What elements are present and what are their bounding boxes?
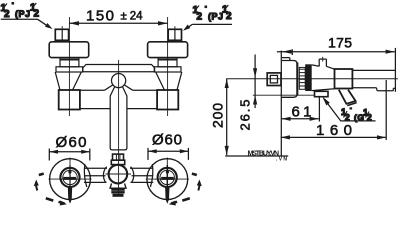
26.5 lower reference line	[253, 94, 315, 96]
left rotation arrow B	[34, 180, 39, 191]
left rotation arrow dash A	[39, 174, 44, 175]
diverter hub ears	[103, 167, 106, 183]
right escutcheon cover	[148, 42, 188, 58]
svg-text:160: 160	[316, 122, 352, 139]
wall line	[280, 51, 282, 157]
diverter hub circle	[109, 165, 128, 184]
left tube flare arc	[84, 164, 86, 187]
dimension 175	[277, 35, 395, 56]
spout tube	[352, 48, 395, 92]
label 1/2 (G 1/2) with leader	[322, 97, 375, 123]
left body taper	[55, 72, 81, 90]
svg-text:MSTBUY.VN: MSTBUY.VN	[248, 151, 280, 158]
body cone	[312, 65, 335, 91]
left wall hex nut	[55, 26, 68, 40]
diverter knob flange	[111, 160, 124, 164]
right handle crosshair	[146, 158, 189, 180]
right lever	[165, 187, 169, 204]
side wall hex nut	[267, 73, 281, 86]
handle stem	[319, 57, 326, 67]
axis line	[226, 78, 398, 80]
svg-text:26.5: 26.5	[238, 100, 253, 131]
centerline middle	[118, 60, 120, 195]
diverter base discs	[111, 188, 124, 190]
lower connecting bar	[80, 90, 157, 108]
baseline bottom reference	[225, 155, 288, 157]
watermark text	[248, 151, 288, 163]
left handle ring	[60, 168, 79, 187]
dimension 200	[210, 79, 229, 156]
dimension 160	[281, 80, 387, 140]
upper connecting bar	[83, 65, 155, 72]
right handle outer circle	[147, 159, 188, 200]
shower outlet port	[315, 91, 329, 96]
dimension 26.5	[238, 55, 258, 131]
svg-text:2: 2	[226, 11, 232, 22]
svg-text:175: 175	[328, 35, 352, 51]
right tube flare arc	[150, 164, 152, 187]
label thread 1/2 (PJ) 1/2 top-right	[183, 5, 232, 31]
left handle crosshair	[49, 158, 92, 180]
side escutcheon	[282, 58, 297, 98]
right handle dot	[166, 170, 169, 173]
right rotation arrow dash A	[192, 174, 197, 175]
dimension Ø60 right	[148, 132, 188, 160]
right valve block	[157, 90, 178, 110]
dimension Ø60 left	[49, 134, 90, 161]
angled nozzle	[339, 90, 357, 106]
bridge tube lines	[84, 168, 153, 182]
right rotation arrow B	[197, 180, 202, 191]
left escutcheon cover	[49, 42, 88, 58]
svg-text:(PJ: (PJ	[15, 9, 31, 19]
left valve block	[59, 90, 80, 110]
svg-text:Ø60: Ø60	[152, 132, 182, 149]
diverter skirt	[110, 183, 126, 188]
coupling ribs	[299, 67, 305, 89]
left handle dash	[64, 177, 77, 180]
left lever	[68, 187, 72, 204]
svg-text:2: 2	[197, 12, 203, 23]
right flange	[154, 67, 181, 72]
svg-text:150: 150	[86, 8, 114, 25]
centerline left unit	[68, 17, 70, 116]
svg-text:2: 2	[345, 113, 351, 123]
center joint circle	[112, 74, 126, 88]
svg-text:Ø60: Ø60	[56, 134, 87, 151]
right handle ring	[158, 168, 177, 187]
diverter crosshair	[106, 173, 132, 175]
fan lines	[104, 85, 132, 150]
svg-text:2: 2	[367, 113, 373, 123]
left handle outer circle	[50, 159, 91, 200]
left flange	[56, 67, 83, 72]
svg-text:61: 61	[292, 104, 312, 121]
svg-text:2: 2	[34, 9, 40, 20]
valve body block	[335, 69, 353, 89]
dimension 61	[281, 98, 319, 122]
right coupling nut	[158, 58, 177, 67]
diverter knob neck	[113, 154, 124, 160]
svg-text:2: 2	[4, 9, 10, 20]
label thread 1/2 (PJ) 1/2 top-left	[1, 2, 53, 29]
left coupling nut	[60, 58, 79, 67]
left handle dot	[68, 170, 71, 173]
centerline right unit	[167, 17, 169, 116]
right wall hex nut	[168, 26, 181, 40]
right body taper	[156, 72, 182, 90]
svg-text:± 24: ± 24	[121, 11, 144, 23]
black collar bar	[305, 64, 312, 91]
left rotation arc dashes	[46, 198, 54, 200]
right handle dash	[161, 177, 174, 180]
right rotation arc dashes	[182, 198, 190, 200]
svg-text:200: 200	[210, 103, 226, 128]
dimension 150 +-24 line	[69, 21, 167, 25]
